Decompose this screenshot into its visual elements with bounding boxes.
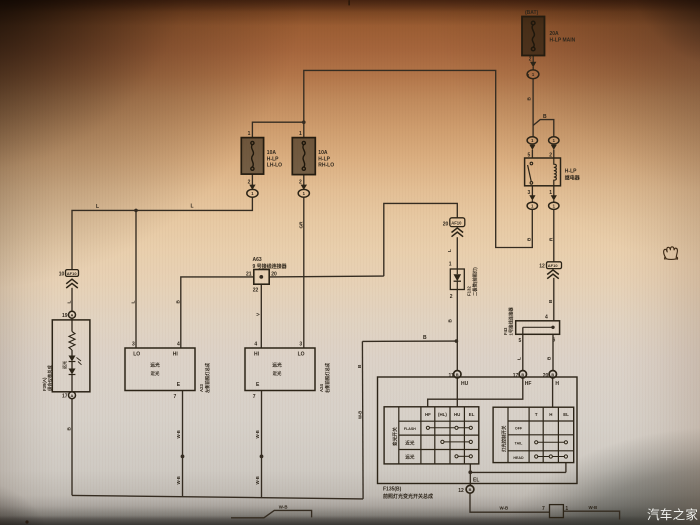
svg-text:2: 2 bbox=[549, 152, 552, 158]
svg-text:9 号接线连接器: 9 号接线连接器 bbox=[253, 263, 288, 270]
svg-text:W-B: W-B bbox=[255, 476, 260, 484]
svg-text:LH-LO: LH-LO bbox=[267, 163, 282, 169]
svg-text:F135(B): F135(B) bbox=[383, 487, 402, 493]
svg-text:A63: A63 bbox=[253, 257, 262, 263]
svg-text:B: B bbox=[423, 335, 427, 341]
svg-text:F43: F43 bbox=[503, 327, 508, 335]
svg-text:灯光控制开关: 灯光控制开关 bbox=[501, 425, 508, 452]
svg-text:1: 1 bbox=[553, 138, 556, 143]
svg-text:TAIL: TAIL bbox=[515, 442, 524, 446]
svg-text:1: 1 bbox=[553, 204, 556, 209]
svg-text:4: 4 bbox=[254, 342, 257, 348]
svg-text:GR: GR bbox=[299, 221, 304, 229]
svg-text:B: B bbox=[521, 373, 524, 377]
svg-text:H-LP: H-LP bbox=[565, 169, 577, 175]
svg-text:5: 5 bbox=[519, 338, 522, 344]
svg-text:近光: 近光 bbox=[405, 439, 415, 446]
svg-text:1: 1 bbox=[299, 131, 302, 137]
svg-text:E: E bbox=[256, 382, 260, 388]
svg-text:2: 2 bbox=[529, 57, 532, 63]
svg-text:1: 1 bbox=[248, 131, 251, 137]
svg-text:HF: HF bbox=[425, 412, 431, 417]
svg-text:W-B: W-B bbox=[589, 505, 598, 510]
svg-text:B: B bbox=[551, 373, 554, 377]
svg-text:B: B bbox=[456, 373, 459, 377]
svg-text:10A: 10A bbox=[267, 150, 277, 156]
svg-text:22: 22 bbox=[253, 288, 259, 294]
svg-text:R: R bbox=[549, 237, 554, 241]
svg-text:B: B bbox=[67, 427, 72, 431]
svg-text:W-B: W-B bbox=[255, 430, 260, 438]
svg-text:1: 1 bbox=[531, 138, 534, 143]
svg-text:11: 11 bbox=[449, 373, 455, 379]
svg-text:B: B bbox=[547, 356, 552, 360]
svg-text:B: B bbox=[448, 319, 453, 323]
svg-text:HU: HU bbox=[454, 412, 460, 417]
svg-text:B: B bbox=[548, 299, 553, 303]
svg-text:2: 2 bbox=[299, 179, 302, 185]
svg-text:OFF: OFF bbox=[515, 427, 523, 431]
svg-text:1号接线连接器: 1号接线连接器 bbox=[508, 307, 515, 336]
svg-text:W-B: W-B bbox=[176, 430, 181, 438]
svg-text:B: B bbox=[176, 300, 181, 304]
svg-text:L: L bbox=[131, 301, 136, 304]
svg-text:继电器: 继电器 bbox=[565, 175, 581, 182]
svg-text:HEAD: HEAD bbox=[513, 456, 524, 460]
svg-text:12: 12 bbox=[539, 263, 545, 269]
svg-text:20: 20 bbox=[271, 272, 277, 278]
svg-text:B: B bbox=[469, 488, 472, 492]
svg-text:17: 17 bbox=[62, 394, 68, 400]
svg-text:W-B: W-B bbox=[358, 411, 363, 419]
svg-text:W-B: W-B bbox=[500, 505, 509, 510]
svg-text:L: L bbox=[67, 301, 72, 304]
svg-text:近光: 近光 bbox=[273, 370, 282, 377]
svg-text:H-LP: H-LP bbox=[267, 156, 279, 162]
svg-text:3: 3 bbox=[528, 190, 531, 196]
svg-text:EL: EL bbox=[473, 478, 479, 484]
svg-text:1: 1 bbox=[303, 191, 306, 196]
svg-text:B: B bbox=[357, 364, 362, 368]
svg-text:RH-LO: RH-LO bbox=[318, 163, 334, 169]
svg-text:E: E bbox=[177, 382, 181, 388]
svg-text:V: V bbox=[256, 312, 261, 316]
svg-text:L: L bbox=[191, 203, 194, 209]
svg-text:组合仪表总成: 组合仪表总成 bbox=[47, 365, 54, 391]
svg-text:20A: 20A bbox=[550, 31, 560, 37]
svg-text:1: 1 bbox=[531, 204, 534, 209]
svg-text:HF: HF bbox=[525, 381, 532, 387]
svg-text:前照灯光变光开关总成: 前照灯光变光开关总成 bbox=[383, 493, 433, 500]
svg-text:1: 1 bbox=[532, 72, 535, 77]
svg-text:1: 1 bbox=[251, 191, 254, 196]
svg-text:10: 10 bbox=[59, 271, 65, 277]
svg-text:(HL): (HL) bbox=[438, 412, 447, 417]
svg-text:7: 7 bbox=[542, 506, 545, 512]
svg-text:W-B: W-B bbox=[176, 476, 181, 484]
svg-text:1: 1 bbox=[549, 190, 552, 196]
svg-text:HI: HI bbox=[254, 351, 260, 357]
svg-text:19: 19 bbox=[62, 313, 68, 319]
svg-text:HI: HI bbox=[173, 351, 179, 357]
svg-text:L: L bbox=[447, 249, 452, 252]
svg-text:A24: A24 bbox=[319, 384, 324, 392]
svg-text:A: A bbox=[71, 393, 74, 398]
svg-text:10A: 10A bbox=[318, 150, 328, 156]
svg-text:B: B bbox=[527, 237, 532, 241]
svg-text:A: A bbox=[71, 313, 74, 318]
svg-text:EL: EL bbox=[563, 412, 569, 417]
svg-text:L: L bbox=[517, 357, 522, 360]
svg-text:二极管(前照灯): 二极管(前照灯) bbox=[472, 267, 479, 296]
svg-text:LO: LO bbox=[133, 351, 140, 357]
svg-text:EL: EL bbox=[469, 412, 475, 417]
svg-text:1: 1 bbox=[565, 506, 568, 512]
svg-text:3: 3 bbox=[299, 342, 302, 348]
svg-text:1: 1 bbox=[449, 262, 452, 268]
svg-text:HU: HU bbox=[461, 381, 469, 387]
svg-text:H-LP MAIN: H-LP MAIN bbox=[550, 38, 576, 44]
svg-text:AF10: AF10 bbox=[451, 221, 462, 226]
svg-text:21: 21 bbox=[246, 272, 252, 278]
svg-text:H: H bbox=[549, 412, 552, 417]
svg-text:远光: 远光 bbox=[405, 454, 415, 461]
svg-text:F39(A): F39(A) bbox=[42, 377, 47, 391]
svg-text:B: B bbox=[543, 114, 547, 120]
svg-text:7: 7 bbox=[174, 394, 177, 400]
svg-text:A23: A23 bbox=[199, 384, 204, 392]
svg-text:4: 4 bbox=[545, 314, 548, 320]
svg-text:12: 12 bbox=[458, 488, 464, 494]
svg-text:H-LP: H-LP bbox=[318, 156, 330, 162]
svg-text:远光: 远光 bbox=[272, 362, 282, 369]
svg-text:F132: F132 bbox=[467, 286, 472, 296]
svg-text:AF10: AF10 bbox=[67, 271, 78, 276]
svg-text:6: 6 bbox=[553, 337, 556, 343]
svg-text:3: 3 bbox=[132, 342, 135, 348]
svg-text:W-B: W-B bbox=[279, 505, 288, 510]
svg-text:右侧前照灯总成: 右侧前照灯总成 bbox=[324, 362, 331, 393]
svg-text:AF10: AF10 bbox=[548, 263, 559, 268]
svg-text:2: 2 bbox=[248, 179, 251, 185]
svg-text:B: B bbox=[527, 97, 532, 101]
svg-text:2: 2 bbox=[450, 294, 453, 300]
svg-text:FLASH: FLASH bbox=[404, 427, 416, 431]
svg-text:近光: 近光 bbox=[151, 370, 160, 377]
svg-text:远光: 远光 bbox=[61, 361, 67, 369]
svg-text:T: T bbox=[535, 412, 538, 417]
svg-text:H: H bbox=[555, 381, 559, 387]
svg-text:L: L bbox=[96, 204, 99, 210]
svg-text:20: 20 bbox=[443, 221, 449, 227]
svg-text:7: 7 bbox=[253, 394, 256, 400]
svg-text:变光开关: 变光开关 bbox=[392, 427, 399, 446]
svg-text:左侧前照灯总成: 左侧前照灯总成 bbox=[204, 362, 211, 394]
svg-text:远光: 远光 bbox=[150, 362, 160, 369]
svg-text:5: 5 bbox=[528, 152, 531, 158]
svg-text:17: 17 bbox=[513, 373, 519, 379]
svg-text:(BAT): (BAT) bbox=[525, 10, 539, 16]
svg-text:20: 20 bbox=[543, 373, 549, 379]
svg-text:LO: LO bbox=[298, 351, 305, 357]
svg-text:4: 4 bbox=[177, 342, 180, 348]
